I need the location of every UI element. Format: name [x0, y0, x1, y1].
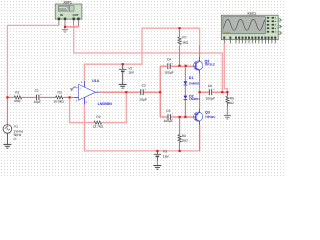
wire D2 to Q3 base node	[184, 100, 186, 117]
wire -16V rail from op-amp V- to Q3 collector	[84, 105, 199, 151]
svg-text:XBP1: XBP1	[63, 1, 72, 5]
wire R3 to op-amp inverting input	[63, 96, 74, 98]
wire feedback: R2 to output node	[102, 92, 127, 122]
ground under V2	[119, 84, 127, 88]
wire Q2 base node to Q2 base	[180, 65, 194, 67]
wire Q3 base node to Q3 base	[185, 116, 194, 118]
svg-text:23.7kΩ: 23.7kΩ	[93, 125, 104, 129]
XSC1 right edge connectors	[278, 19, 282, 35]
resistor R7	[178, 37, 181, 45]
capacitor C6	[209, 89, 214, 95]
svg-text:U1A: U1A	[92, 79, 100, 83]
junction C4/R7/base node	[178, 65, 180, 67]
svg-text:100µF: 100µF	[164, 119, 173, 123]
transistor Q3 TIP32C (PNP)	[194, 109, 203, 125]
XSC1 right knob panel	[267, 17, 276, 33]
wire coupling tee vertical C4 to C5	[159, 66, 161, 117]
resistor R3	[56, 96, 64, 99]
wire R9 bottom to ground	[226, 106, 228, 115]
svg-text:8Ω: 8Ω	[229, 101, 234, 105]
svg-text:60Ω: 60Ω	[14, 99, 21, 103]
svg-text:R8: R8	[182, 134, 186, 138]
svg-text:16V: 16V	[163, 154, 170, 158]
junction R7 at +16V rail	[178, 27, 180, 29]
battery V2	[119, 64, 127, 84]
svg-text:XSC1: XSC1	[247, 12, 256, 16]
battery V3	[154, 151, 162, 161]
ground arrow at op-amp non-inverting input	[70, 86, 76, 92]
wire +16V rail from op-amp V+ to Q2 collector	[84, 28, 199, 81]
wire Q3 collector down to -16V rail	[199, 125, 201, 151]
oscilloscope XSC1	[212, 15, 278, 40]
junction V2 on +16V rail	[122, 63, 124, 65]
wire XBP1 IN- / OUT- to ground	[65, 24, 78, 27]
svg-text:C5: C5	[166, 109, 170, 113]
resistor R9	[226, 92, 229, 106]
Bode plotter XBP1	[55, 4, 82, 19]
junction coupling tee	[159, 91, 161, 93]
svg-text:TIP31C: TIP31C	[205, 63, 216, 67]
canvas background	[0, 0, 284, 177]
svg-text:100µF: 100µF	[164, 70, 173, 74]
svg-text:1kΩ: 1kΩ	[182, 139, 188, 143]
wire Q3 emitter up to output node	[199, 92, 201, 109]
junction diode chain top	[185, 65, 187, 67]
svg-text:Agilent: Agilent	[224, 31, 231, 34]
svg-text:10µF: 10µF	[33, 100, 41, 104]
svg-text:D1: D1	[189, 76, 194, 80]
ground under V3	[153, 166, 161, 170]
junction feedback at output line	[125, 91, 127, 93]
resistor R2	[94, 121, 102, 124]
wire Q2 emitter to output node	[199, 74, 201, 93]
resistor R1	[14, 96, 22, 99]
XBP1 terminal IN+	[58, 18, 60, 25]
wire XBP1 OUT+ probe to output node (top long wire)	[74, 24, 223, 91]
AC source V1	[3, 125, 12, 144]
svg-text:R7: R7	[182, 36, 186, 40]
svg-text:C4: C4	[167, 57, 171, 61]
svg-text:R1: R1	[15, 91, 19, 95]
wire C4 right pin to node	[171, 65, 180, 67]
svg-text:C1: C1	[35, 89, 39, 93]
wire R8 bottom to -16V rail	[179, 150, 181, 151]
junction R8 at -16V rail	[179, 150, 181, 152]
svg-text:1N4001: 1N4001	[189, 81, 200, 85]
capacitor C2	[141, 89, 146, 95]
XBP1 terminal OUT+	[73, 18, 75, 25]
junction emitters output node	[199, 91, 201, 93]
wire output node to C6	[200, 91, 209, 93]
junction Bode probe at load	[221, 91, 223, 93]
svg-text:V3: V3	[163, 149, 167, 153]
ground under XBP1	[62, 28, 68, 33]
svg-text:18.5kΩ: 18.5kΩ	[53, 100, 64, 104]
transistor Q2 TIP31C (NPN)	[194, 57, 203, 74]
svg-text:Q3: Q3	[205, 110, 210, 114]
wire XSC1 CH1 down to load node	[224, 43, 227, 92]
svg-text:R2: R2	[96, 115, 100, 119]
wire op-amp output to C2	[99, 91, 140, 93]
svg-text:-: -	[79, 98, 80, 101]
svg-text:C6: C6	[208, 84, 212, 88]
svg-text:10µF: 10µF	[139, 97, 147, 101]
svg-text:V1: V1	[14, 124, 18, 128]
XBP1 terminal OUT-	[77, 18, 79, 25]
ground under V1	[3, 144, 11, 148]
ground under R9	[224, 115, 231, 119]
junction XBP ground link	[64, 26, 66, 28]
svg-text:1N4001: 1N4001	[189, 97, 200, 101]
wire R1 to C1	[22, 96, 36, 98]
junction diode chain bottom / Q3 base	[179, 116, 181, 118]
diode D2 1N4001	[184, 96, 188, 100]
svg-text:100µF: 100µF	[206, 96, 215, 100]
svg-text:R9: R9	[230, 96, 234, 100]
XBP1 terminal IN-	[64, 18, 66, 25]
wire C5 right pin to Q3 base node	[171, 116, 186, 118]
svg-text:TIP32C: TIP32C	[205, 115, 216, 119]
svg-text:C2: C2	[142, 83, 146, 87]
capacitor C1	[37, 94, 42, 100]
svg-text:16V: 16V	[128, 71, 135, 75]
wire R7 bottom to Q2 base node	[179, 45, 181, 66]
wire XBP1 IN+ probe to input node (left long wire)	[7, 24, 59, 97]
wire V3 to ground	[156, 161, 158, 166]
wire C4 left pin	[160, 65, 167, 67]
diode D1 1N4001	[184, 81, 188, 85]
wire input node to R1	[7, 96, 14, 98]
wire C6 to load node	[213, 91, 228, 93]
junction input node	[6, 96, 8, 98]
capacitor C5	[168, 114, 173, 120]
wire R8 top pin	[179, 117, 181, 135]
wire R7 top pin from +16V rail	[179, 28, 181, 37]
svg-text:LM358N: LM358N	[98, 102, 112, 106]
wire D1 to D2	[184, 86, 186, 96]
junction inverting input node	[69, 96, 71, 98]
wire input node to V1	[6, 97, 8, 124]
wire C1 to R3	[40, 96, 56, 98]
junction load node	[226, 91, 228, 93]
op-amp U1A LM358N	[73, 81, 99, 105]
XSC1 bottom terminal row	[223, 37, 276, 44]
wire diode chain top	[184, 66, 186, 81]
capacitor C4	[168, 63, 173, 69]
resistor R8	[178, 135, 181, 150]
wire feedback: inverting node down to R2	[70, 97, 94, 122]
wire C5 left pin	[160, 116, 167, 118]
wire C2 to coupling tee node	[144, 91, 161, 93]
wire Q2 collector to +16V rail	[199, 45, 201, 57]
svg-text:1kΩ: 1kΩ	[182, 41, 188, 45]
svg-text:R3: R3	[58, 91, 62, 95]
junction V3 on -16V rail	[156, 150, 158, 152]
